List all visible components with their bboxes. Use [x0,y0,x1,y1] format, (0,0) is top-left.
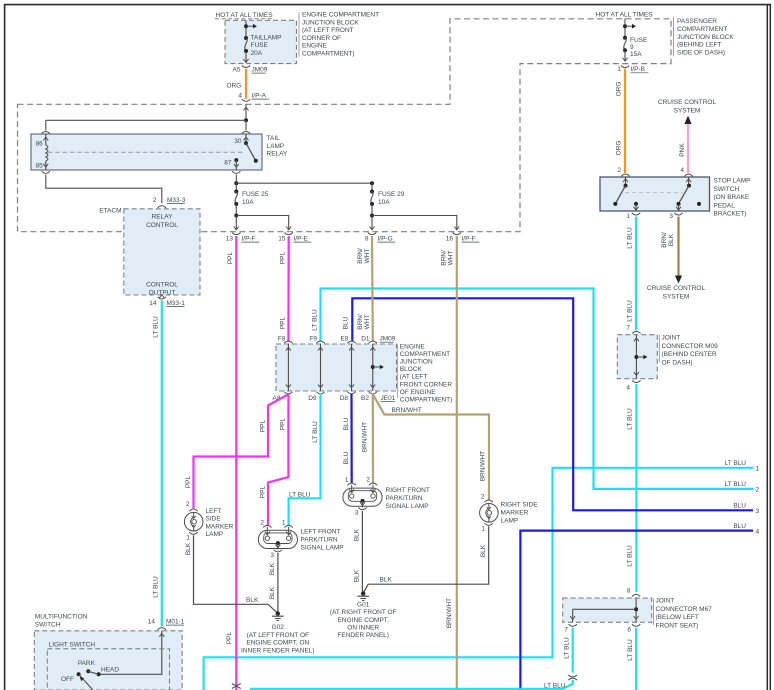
module ETACM box [124,209,200,295]
svg-text:G01: G01 [357,602,370,609]
wire LT BLU terminal 1 [204,468,753,690]
svg-text:BLK: BLK [269,562,276,575]
svg-text:3: 3 [355,510,359,517]
svg-text:14: 14 [148,619,156,626]
connector M67 pin 6 [632,624,640,626]
svg-text:I/P-E: I/P-E [294,236,309,243]
svg-text:COMPARTMENT): COMPARTMENT) [400,397,452,404]
wire PNK cruise control to stop lamp switch pin 4 [687,124,689,173]
svg-text:ENGINE COMPT,: ENGINE COMPT, [338,617,389,624]
svg-text:I/P-B: I/P-B [631,66,645,73]
svg-text:TAILLAMP: TAILLAMP [251,35,282,42]
stop lamp switch pin 1 contact [634,202,638,206]
inline connector on M67 pin7 wire [568,675,577,677]
svg-text:RELAY: RELAY [267,151,288,158]
svg-text:PEDAL: PEDAL [714,202,736,209]
svg-text:2: 2 [756,487,760,494]
arrow M09 tap right [636,356,644,358]
svg-text:BLK: BLK [354,528,361,541]
svg-text:BLK: BLK [480,544,487,557]
svg-text:RIGHT SIDE: RIGHT SIDE [501,502,539,509]
leader M09 text [658,335,660,362]
connector 13 I/P-F [232,233,240,235]
relay pin 87 [234,158,238,162]
ground G02 [276,611,280,615]
svg-text:6: 6 [627,627,631,634]
arrow to cruise control system (down) [675,276,682,284]
svg-text:86: 86 [36,140,44,147]
svg-text:WHT: WHT [447,251,454,266]
wire PPL A8 branch to left front park lamp pin 2 [268,394,288,526]
node fuse 25 feed [234,181,238,185]
svg-text:LT BLU: LT BLU [153,316,160,338]
wire ORG I/P-B to stop lamp switch pin 2 [624,69,626,173]
svg-text:1: 1 [345,477,349,484]
wire taillamp fuse feed [245,20,247,38]
leader engine JB middle text [397,345,399,399]
svg-text:4: 4 [680,167,684,174]
svg-text:PARK/TURN: PARK/TURN [386,495,423,502]
wire LT BLU stop switch pin1 to joint connector M09 [635,217,637,331]
svg-text:JUNCTION BLOCK: JUNCTION BLOCK [677,34,734,41]
relay TAIL LAMP RELAY box [31,134,262,170]
svg-text:OF DASH): OF DASH) [662,359,693,366]
wire BLK left front park lamp pin 3 to G02 [277,553,279,614]
wire I/P-A entry down to feed node [244,107,249,110]
wire BRN/WHT I/P-F 16 down page [456,236,458,690]
node fuse 29 output branch [370,214,374,218]
svg-text:RELAY: RELAY [152,214,173,221]
svg-text:16: 16 [446,236,454,243]
svg-text:10A: 10A [242,199,254,206]
stop lamp switch right blade [679,186,690,204]
svg-text:CONTROL: CONTROL [146,222,178,229]
svg-text:PARK/TURN: PARK/TURN [301,537,338,544]
wire multifunction switch pin 14 to light switch [159,634,164,637]
svg-text:JM09: JM09 [380,336,396,343]
svg-text:LIGHT SWITCH: LIGHT SWITCH [49,641,96,648]
svg-text:OFF: OFF [61,676,74,683]
svg-text:BLU: BLU [733,523,746,530]
wire BLU terminal 3 to junction block E8 [352,298,753,510]
svg-text:CONTROL: CONTROL [146,282,178,289]
connector 1 I/P-B [621,66,629,68]
svg-text:LT BLU: LT BLU [312,421,319,443]
svg-text:3: 3 [756,508,760,515]
passenger compartment junction block dashed outline [18,19,672,232]
relay switch blade [246,143,256,161]
svg-text:M33-1: M33-1 [167,300,186,307]
svg-text:BRN/WHT: BRN/WHT [479,451,486,481]
svg-text:PNK: PNK [679,143,686,157]
svg-text:COMPARTMENT: COMPARTMENT [677,26,727,33]
svg-text:87: 87 [224,160,232,167]
svg-text:PPL: PPL [185,475,192,488]
connector M67 pin 7 [569,624,577,626]
svg-text:BLK: BLK [380,577,393,584]
svg-text:BLK: BLK [246,597,259,604]
svg-text:LT BLU: LT BLU [544,683,566,690]
svg-text:LT BLU: LT BLU [725,460,747,467]
connector M09 pin 4 [632,380,640,382]
stop lamp switch spare contact [697,202,701,206]
svg-text:E8: E8 [341,336,349,343]
svg-text:SWITCH: SWITCH [714,186,740,193]
wire BLK left side marker to G02 [194,535,278,613]
svg-text:BRN/WHT: BRN/WHT [362,422,369,452]
wire BRN/WHT B2 to right front park lamp pin 2 [372,394,374,484]
wire BRN/WHT I/P-G 8 to junction block D1 [371,236,374,342]
svg-text:1: 1 [186,535,190,542]
svg-text:BLU: BLU [343,316,350,329]
svg-text:OF ENGINE: OF ENGINE [400,389,436,396]
svg-text:20A: 20A [251,50,263,57]
junction block pin E8-D8 internal wire [351,344,353,391]
svg-text:LT BLU: LT BLU [627,227,634,249]
svg-text:CONNECTOR M67: CONNECTOR M67 [656,606,713,613]
wire ORG from taillamp fuse to I/P-A [245,69,247,99]
svg-text:PPL: PPL [260,485,267,498]
svg-text:BRACKET): BRACKET) [714,211,747,218]
arrow bus tap right (fuse 9) [625,25,633,27]
wire LT BLU D9 to left front park lamp pin 1 [289,394,321,527]
svg-text:D1: D1 [361,336,370,343]
wire LT BLU below inline connector to page bottom left [250,680,573,689]
wire LT BLU ETACM control output to multifunction switch [161,300,163,626]
wire relay 87 to fuse bus [235,175,237,184]
svg-text:BLU: BLU [343,417,350,430]
svg-text:85: 85 [36,162,44,169]
wire PPL A8 branch to left side marker lamp [194,394,289,508]
arrow to cruise control system (up) [684,116,691,125]
connector 16 I/P-F [453,233,461,235]
wire PPL I/P-F 13 down page [235,236,237,690]
svg-text:M33-3: M33-3 [167,197,186,204]
node junction block internal tap [371,365,375,369]
svg-text:JM09: JM09 [252,67,268,74]
wire fuse25 to I/P-F 13 [235,216,237,230]
svg-text:PARK: PARK [78,660,96,667]
svg-text:4: 4 [756,528,760,535]
svg-text:WHT: WHT [364,249,371,264]
wire BLU D8 to right front park lamp pin 1 [350,394,352,484]
stop lamp switch pin 2 contact [625,177,627,186]
svg-text:G02: G02 [272,624,285,631]
svg-text:LEFT FRONT: LEFT FRONT [301,529,341,536]
svg-text:MARKER: MARKER [501,509,529,516]
svg-text:FUSE: FUSE [630,37,648,44]
svg-text:LEFT: LEFT [206,508,222,515]
svg-text:4: 4 [238,93,242,100]
svg-text:ORG: ORG [616,141,623,156]
svg-text:FUSE 25: FUSE 25 [242,191,269,198]
wire LT BLU M67 pin 6 to page bottom [635,628,637,690]
svg-text:LT BLU: LT BLU [564,637,571,659]
svg-text:LT BLU: LT BLU [289,491,311,498]
switch MULTIFUNCTION SWITCH box [34,631,182,690]
wire fuse feed bus [236,182,372,184]
svg-text:(ON BRAKE: (ON BRAKE [714,194,750,201]
svg-text:8: 8 [627,588,631,595]
svg-text:I/P-A: I/P-A [252,93,267,100]
svg-text:(AT LEFT FRONT OF: (AT LEFT FRONT OF [247,632,309,639]
svg-text:13: 13 [226,236,234,243]
svg-text:(BEHIND CENTER: (BEHIND CENTER [662,351,718,358]
leader passenger compartment JB text [673,17,675,57]
svg-text:INNER FENDER PANEL): INNER FENDER PANEL) [241,647,315,654]
svg-text:D8: D8 [340,395,349,402]
svg-text:BRN/WHT: BRN/WHT [392,407,422,414]
svg-text:TAIL: TAIL [267,135,281,142]
svg-text:HEAD: HEAD [101,667,119,674]
relay interior dashed line [48,151,245,153]
svg-text:2: 2 [366,477,370,484]
svg-text:ENGINE: ENGINE [302,43,328,50]
joint connector M67 internal wires [635,598,637,622]
svg-text:ENGINE COMPT, ON: ENGINE COMPT, ON [246,640,309,647]
svg-text:JUNCTION: JUNCTION [400,359,433,366]
svg-text:F9: F9 [309,336,317,343]
relay switch pin 30 [245,134,247,143]
svg-text:10A: 10A [378,199,390,206]
wire BLK right side marker to G01 [363,526,489,593]
svg-text:I/P-F: I/P-F [242,236,256,243]
leader engine compartment JB text [298,13,300,58]
connector 14 M33-1 [159,295,164,298]
svg-text:CRUISE CONTROL: CRUISE CONTROL [658,99,717,106]
svg-text:SWITCH: SWITCH [35,622,61,629]
svg-text:ENGINE COMPARTMENT: ENGINE COMPARTMENT [302,12,379,19]
svg-text:LT BLU: LT BLU [627,545,634,567]
junction block pin F8-A8 internal wire [287,344,289,391]
fuse FUSE 9 15A [623,36,627,40]
svg-text:LAMP: LAMP [267,143,285,150]
svg-text:CONNECTOR M09: CONNECTOR M09 [662,343,719,350]
svg-text:HOT AT ALL TIMES: HOT AT ALL TIMES [216,12,274,19]
fuse FUSE 25 10A [235,183,237,191]
svg-text:ORG: ORG [227,83,242,90]
fuse FUSE 29 10A [371,183,373,191]
light switch HEAD contact [97,672,101,676]
svg-text:JUNCTION BLOCK: JUNCTION BLOCK [302,19,359,26]
svg-text:I/P-F: I/P-F [462,236,476,243]
svg-text:PPL: PPL [279,417,286,430]
svg-text:LT BLU: LT BLU [627,408,634,430]
svg-text:PPL: PPL [279,251,286,264]
connector relay pin 30 [242,131,250,133]
svg-text:M01-1: M01-1 [166,619,185,626]
node fuse 25 output branch [234,214,238,218]
svg-text:4: 4 [626,385,630,392]
switch STOP LAMP SWITCH box [600,177,710,211]
svg-text:14: 14 [149,300,157,307]
svg-text:WHT: WHT [364,315,371,330]
joint connector M09 box [617,335,657,379]
wire relay 85 to ETACM pin 2 [46,175,162,204]
svg-text:MULTIFUNCTION: MULTIFUNCTION [35,613,88,620]
joint connector M67 box [563,598,652,622]
stop lamp switch interior dashed line [625,192,683,194]
svg-text:LT BLU: LT BLU [627,300,634,322]
page frame top border [4,4,771,6]
svg-text:1: 1 [626,213,630,220]
light switch OFF contact and blade [77,672,81,676]
svg-text:BLOCK: BLOCK [400,366,423,373]
svg-text:CRUISE CONTROL: CRUISE CONTROL [647,285,706,292]
wire BRN/BLK stop switch pin3 to cruise control [677,217,679,276]
svg-text:FENDER PANEL): FENDER PANEL) [337,632,389,639]
svg-text:CORNER OF: CORNER OF [302,35,341,42]
svg-text:BRN/WHT: BRN/WHT [446,598,453,628]
svg-text:BLU: BLU [733,503,746,510]
svg-text:1: 1 [282,520,286,527]
stop lamp switch pin 3 contact [677,202,681,206]
svg-text:FRONT CORNER: FRONT CORNER [400,381,453,388]
wire feed bus to relay pin 86 [46,119,246,121]
svg-text:LT BLU: LT BLU [153,576,160,598]
joint connector M09 internal wire [635,335,637,379]
page frame right border (double line) [766,4,768,690]
svg-text:COMPARTMENT: COMPARTMENT [400,351,450,358]
svg-text:15A: 15A [630,51,642,58]
node taillamp fuse top [244,24,248,28]
inline connector on PPL wire 13 [232,683,241,685]
wire LT BLU M09 pin4 to joint connector M67 pin 8 [635,384,637,592]
fuse TAILLAMP FUSE 20A [244,36,248,40]
svg-text:BLK: BLK [354,569,361,582]
svg-text:1: 1 [617,66,621,73]
svg-text:ENGINE: ENGINE [400,343,426,350]
connector stop lamp switch pin 3 [674,213,682,215]
connector 15 I/P-E [285,233,293,235]
connector stop lamp switch pin 1 [632,213,640,215]
wire feed to relay pin 30 [245,120,247,130]
svg-text:(AT RIGHT FRONT OF: (AT RIGHT FRONT OF [330,609,397,616]
svg-text:PPL: PPL [226,631,233,644]
svg-text:COMPARTMENT): COMPARTMENT) [302,51,354,58]
svg-text:30: 30 [234,138,242,145]
svg-text:LT BLU: LT BLU [627,639,634,661]
svg-text:SIDE OF DASH): SIDE OF DASH) [677,50,725,57]
connector relay pin 85 bottom [42,171,50,173]
wire PPL I/P-E 15 to junction block F8 [287,236,290,342]
svg-text:2: 2 [617,167,621,174]
svg-text:SIGNAL LAMP: SIGNAL LAMP [301,545,344,552]
wire fuse29 to I/P-G 8 [371,216,373,230]
page frame left border [4,4,6,690]
svg-text:RIGHT FRONT: RIGHT FRONT [386,487,430,494]
svg-text:2: 2 [153,197,157,204]
svg-text:(AT LEFT FRONT: (AT LEFT FRONT [302,27,354,34]
wire LT BLU M67 pin 7 down with inline connector [572,628,574,673]
wire BLU terminal 4 from page bottom [520,531,753,690]
junction block pin D1-B2 internal wire [372,344,374,391]
svg-text:2: 2 [260,520,264,527]
svg-text:SIDE: SIDE [206,516,222,523]
relay coil pin 86 to 85 [45,134,47,145]
svg-text:BLU: BLU [343,451,350,464]
svg-text:ON INNER: ON INNER [347,624,379,631]
wire branch to I/P-F 16 [372,216,457,230]
svg-text:3: 3 [669,213,673,220]
connector 8 I/P-G [368,233,376,235]
svg-text:LAMP: LAMP [206,531,224,538]
node M09 junction [634,355,638,359]
svg-text:A5: A5 [233,67,241,74]
svg-text:PASSENGER: PASSENGER [677,18,717,25]
svg-text:1: 1 [481,526,485,533]
svg-text:SYSTEM: SYSTEM [674,108,701,115]
svg-text:9: 9 [630,44,634,51]
svg-text:1: 1 [756,466,760,473]
wire LT BLU terminal 2 to junction block F9 [321,289,754,489]
light switch inner dashed box [47,649,169,690]
svg-text:3: 3 [270,552,274,559]
svg-text:2: 2 [186,501,190,508]
connector relay pin 87 bottom [232,171,240,173]
svg-text:PPL: PPL [260,419,267,432]
svg-text:LT BLU: LT BLU [312,309,319,331]
svg-text:BLK: BLK [668,233,675,246]
light switch PARK contact and blade [86,669,90,673]
ground G01 [361,591,365,595]
svg-text:FUSE 29: FUSE 29 [378,191,405,198]
svg-text:MARKER: MARKER [206,523,234,530]
svg-text:HOT AT ALL TIMES: HOT AT ALL TIMES [596,12,654,19]
wire fuse 9 feed [624,19,626,38]
node feed junction [244,118,248,122]
node fuse 9 top [623,24,627,28]
svg-text:ETACM: ETACM [99,208,121,215]
svg-text:(BEHIND LEFT: (BEHIND LEFT [677,42,721,49]
connector A5 JM09 [242,65,250,67]
svg-text:ORG: ORG [616,82,623,97]
svg-text:JE01: JE01 [381,395,396,402]
svg-text:7: 7 [564,627,568,634]
svg-text:BLK: BLK [269,586,276,599]
connector relay pin 86 [42,131,50,133]
svg-text:BLK: BLK [185,542,192,555]
svg-text:SYSTEM: SYSTEM [663,294,690,301]
svg-text:2: 2 [481,494,485,501]
svg-text:B2: B2 [361,395,369,402]
arrow junction block tap right [373,366,381,368]
svg-text:JOINT: JOINT [656,598,675,605]
svg-text:15: 15 [278,236,286,243]
svg-text:(BELOW LEFT: (BELOW LEFT [656,614,699,621]
svg-text:FUSE: FUSE [251,42,269,49]
svg-text:7: 7 [626,325,630,332]
arrow bus tap right [246,25,254,27]
svg-text:PPL: PPL [227,251,234,264]
stop lamp switch pin 4 contact [688,177,690,186]
wire branch to I/P-E 15 [236,216,288,230]
svg-text:I/P-G: I/P-G [378,236,393,243]
svg-text:8: 8 [365,236,369,243]
svg-text:D9: D9 [308,395,317,402]
leader M67 text [653,599,655,626]
svg-text:LT BLU: LT BLU [725,481,747,488]
wire BRN/WHT B2 branch to right side marker lamp pin 2 [373,394,489,500]
svg-text:PPL: PPL [279,316,286,329]
wire BLK right front park lamp pin 3 to G01 [361,511,363,594]
svg-text:JOINT: JOINT [662,335,681,342]
svg-text:LAMP: LAMP [501,517,519,524]
engine compartment junction block (taillamp fuse) box [225,20,297,63]
junction block JM09/JE01 box [276,344,397,391]
svg-text:SIGNAL LAMP: SIGNAL LAMP [386,503,429,510]
svg-text:F8: F8 [278,336,286,343]
